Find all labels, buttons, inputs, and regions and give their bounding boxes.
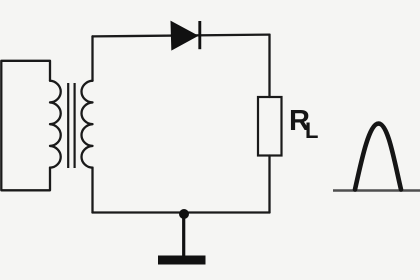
wire secondary left lead up bbox=[91, 36, 93, 80]
transformer T1 core bbox=[68, 83, 74, 168]
transformer T1 primary winding bbox=[50, 81, 61, 168]
wire secondary bottom lead bbox=[91, 168, 93, 213]
ground bbox=[158, 214, 206, 265]
resistor RL bbox=[258, 97, 282, 156]
wire bottom bbox=[93, 211, 270, 213]
junction dot bbox=[179, 209, 189, 219]
wire secondary top bbox=[93, 35, 270, 37]
diode D1 bbox=[171, 21, 200, 50]
wire right lower bbox=[268, 156, 270, 213]
label RL bbox=[289, 105, 318, 143]
wire right upper bbox=[268, 35, 270, 97]
wire primary loop bbox=[1, 61, 50, 191]
transformer T1 secondary winding bbox=[81, 81, 92, 168]
output waveform pulse bbox=[355, 124, 401, 190]
svg-text:L: L bbox=[305, 118, 318, 143]
output waveform baseline bbox=[333, 189, 420, 192]
